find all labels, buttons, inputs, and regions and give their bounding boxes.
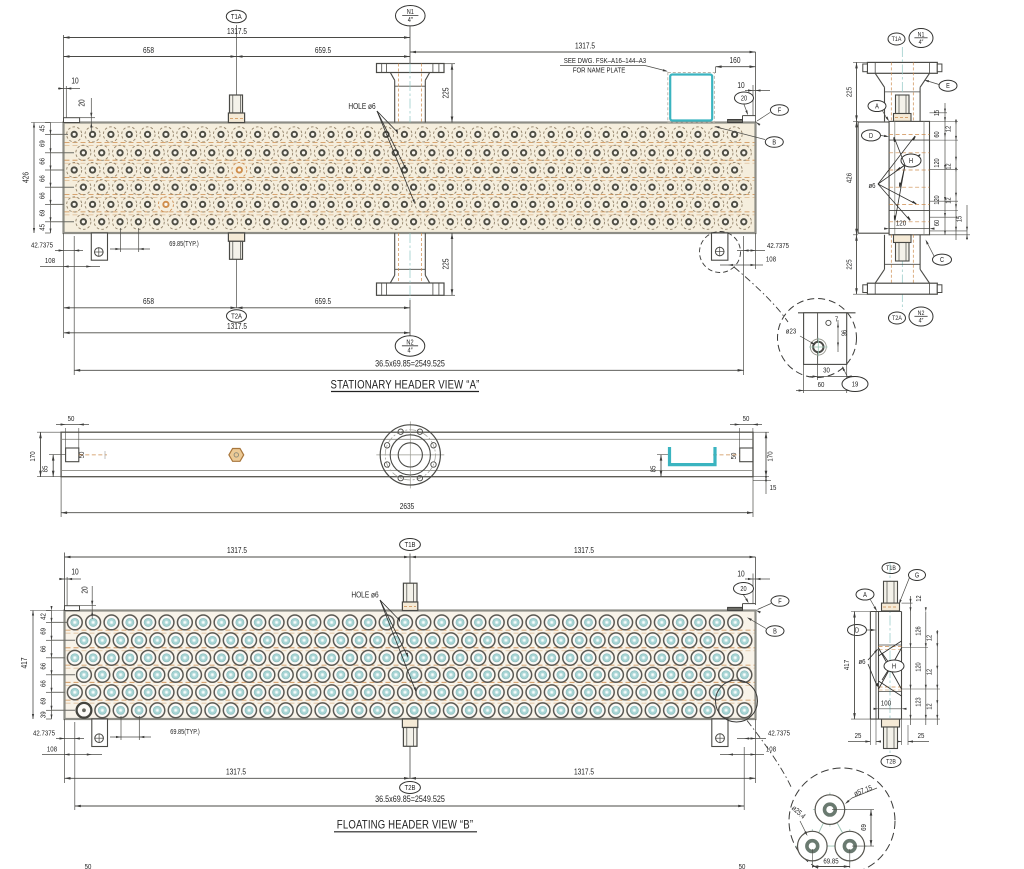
svg-text:B: B [772,139,776,147]
svg-text:T2B: T2B [886,759,896,766]
svg-text:160: 160 [730,55,741,65]
svg-text:85: 85 [650,465,658,472]
svg-text:12: 12 [915,595,923,602]
svg-text:42.7375: 42.7375 [33,730,55,738]
svg-text:69: 69 [40,628,48,635]
svg-text:HOLE ø6: HOLE ø6 [348,101,375,111]
svg-text:15: 15 [770,484,777,492]
svg-text:42: 42 [40,613,48,620]
svg-text:1317.5: 1317.5 [227,26,247,36]
svg-text:ø25.4: ø25.4 [790,805,807,821]
svg-text:170: 170 [29,451,37,461]
svg-text:25: 25 [918,732,925,740]
svg-text:19: 19 [852,381,859,389]
svg-text:50: 50 [743,415,750,423]
svg-text:12: 12 [945,197,953,204]
svg-text:96: 96 [841,329,849,336]
svg-text:120: 120 [933,158,941,168]
svg-text:FLOATING HEADER VIEW “B”: FLOATING HEADER VIEW “B” [337,819,474,832]
svg-text:225: 225 [846,87,854,97]
svg-text:1317.5: 1317.5 [227,545,247,555]
svg-text:1317.5: 1317.5 [575,41,595,51]
svg-text:STATIONARY HEADER VIEW “A”: STATIONARY HEADER VIEW “A” [331,379,480,392]
svg-text:1317.5: 1317.5 [226,767,246,777]
svg-text:10: 10 [737,80,744,90]
svg-text:69.85: 69.85 [823,858,838,866]
svg-text:659.5: 659.5 [315,45,331,55]
svg-text:66: 66 [39,192,47,199]
svg-text:50: 50 [739,863,746,869]
svg-text:15: 15 [956,215,964,222]
svg-text:12: 12 [926,634,934,641]
svg-text:66: 66 [39,158,47,165]
svg-text:42.7375: 42.7375 [768,730,790,738]
svg-text:25: 25 [855,732,862,740]
svg-text:120: 120 [915,662,923,672]
svg-text:T1A: T1A [892,37,902,44]
svg-text:30: 30 [823,367,830,375]
svg-text:12: 12 [926,703,934,710]
svg-text:225: 225 [441,88,451,99]
svg-text:100: 100 [881,700,891,708]
svg-text:36.5x69.85=2549.525: 36.5x69.85=2549.525 [375,359,445,369]
svg-text:108: 108 [47,746,57,754]
svg-text:20: 20 [741,95,748,103]
svg-text:60: 60 [933,131,941,138]
svg-text:4″: 4″ [919,318,924,325]
svg-text:123: 123 [915,697,923,707]
svg-text:417: 417 [19,658,29,669]
svg-text:659.5: 659.5 [315,296,331,306]
svg-text:658: 658 [143,45,154,55]
svg-text:42.7375: 42.7375 [767,242,789,250]
svg-text:45: 45 [39,224,47,231]
svg-text:120: 120 [896,220,906,228]
svg-text:120: 120 [933,195,941,205]
svg-text:426: 426 [846,173,854,183]
svg-text:1317.5: 1317.5 [574,767,594,777]
svg-text:12: 12 [945,163,953,170]
svg-text:F: F [778,598,782,606]
svg-text:4″: 4″ [407,347,413,355]
svg-text:12: 12 [926,668,934,675]
svg-text:ø6: ø6 [868,182,875,190]
svg-text:50: 50 [730,452,738,459]
svg-text:69: 69 [39,140,47,147]
svg-text:12: 12 [945,125,953,132]
svg-text:D: D [869,132,873,140]
svg-text:36.5x69.85=2549.525: 36.5x69.85=2549.525 [375,794,445,804]
svg-text:E: E [946,83,950,91]
svg-text:108: 108 [766,256,776,264]
svg-text:FOR NAME PLATE: FOR NAME PLATE [573,67,626,75]
svg-text:T1A: T1A [231,13,242,21]
svg-text:225: 225 [441,259,451,270]
svg-text:ø23: ø23 [786,328,797,336]
svg-text:50: 50 [85,863,92,869]
svg-text:126: 126 [915,626,923,636]
svg-text:T2B: T2B [405,784,416,792]
svg-text:20: 20 [80,586,90,593]
svg-text:66: 66 [39,175,47,182]
svg-text:B: B [773,628,777,636]
svg-text:20: 20 [740,585,747,593]
svg-text:69.85(TYP.): 69.85(TYP.) [170,728,199,736]
svg-text:1317.5: 1317.5 [574,545,594,555]
svg-text:1317.5: 1317.5 [227,321,247,331]
svg-text:10: 10 [71,567,78,577]
svg-text:66: 66 [40,645,48,652]
svg-text:G: G [915,572,919,580]
svg-text:C: C [940,256,944,264]
svg-text:2635: 2635 [400,501,415,511]
svg-text:60: 60 [818,381,825,389]
svg-text:69: 69 [39,210,47,217]
svg-text:39: 39 [40,711,48,718]
svg-text:66: 66 [40,663,48,670]
svg-text:170: 170 [767,451,775,461]
svg-text:50: 50 [68,415,75,423]
svg-text:H: H [892,663,896,671]
svg-text:20: 20 [77,99,87,106]
svg-text:108: 108 [45,257,55,265]
svg-text:10: 10 [71,76,78,86]
svg-text:T2A: T2A [892,316,902,323]
svg-text:F: F [778,107,782,115]
svg-text:4″: 4″ [408,17,414,25]
svg-text:225: 225 [846,259,854,269]
svg-text:417: 417 [843,660,851,670]
svg-text:69.85(TYP.): 69.85(TYP.) [169,240,198,248]
svg-text:T1B: T1B [886,566,896,573]
svg-text:658: 658 [143,296,154,306]
svg-text:10: 10 [737,569,744,579]
svg-text:ø6: ø6 [858,658,865,666]
svg-text:69: 69 [860,824,868,831]
svg-text:66: 66 [40,680,48,687]
svg-text:60: 60 [933,219,941,226]
svg-text:SEE DWG. FSK–A16–144–A3: SEE DWG. FSK–A16–144–A3 [564,57,647,65]
svg-text:85: 85 [42,465,50,472]
svg-text:4″: 4″ [919,40,924,47]
svg-text:45: 45 [39,125,47,132]
svg-text:426: 426 [21,172,31,183]
svg-text:HOLE ø6: HOLE ø6 [351,590,378,600]
svg-text:T1B: T1B [405,541,416,549]
svg-text:42.7375: 42.7375 [31,242,53,250]
svg-text:T2A: T2A [231,313,242,321]
svg-text:D: D [855,627,859,635]
svg-text:H: H [909,157,913,165]
svg-text:69: 69 [40,698,48,705]
